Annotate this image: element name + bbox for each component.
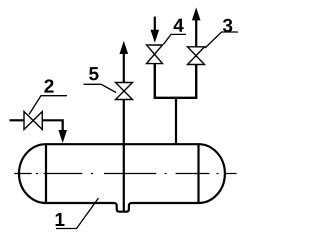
- valve 5: [116, 83, 133, 100]
- pipe into valve 4: [154, 17, 156, 31]
- pipe above valve 3: [195, 19, 197, 47]
- label 4 leader: [164, 34, 187, 44]
- valve 3: [188, 47, 205, 65]
- arrow into vessel from valve 2: [58, 130, 67, 143]
- label 3: [223, 19, 232, 32]
- label 2 leader: [29, 96, 67, 115]
- pipe from valve 2 to vessel: [42, 120, 63, 131]
- arrow up from valve 5: [120, 41, 129, 54]
- header pipe joining valves 4 and 3: [155, 64, 196, 98]
- vessel right head seam: [197, 144, 199, 203]
- dip tube from valve 5 into vessel sump: [123, 100, 125, 212]
- arrow up from valve 3: [192, 7, 201, 20]
- label 1: [56, 213, 65, 226]
- arrow down into valve 4: [151, 30, 160, 43]
- label 2: [44, 79, 53, 92]
- label 3 leader: [205, 32, 238, 48]
- label 4: [174, 19, 184, 32]
- label 5: [89, 67, 98, 80]
- label 5 leader: [84, 84, 117, 92]
- label 1 leader: [56, 198, 99, 229]
- valve 2: [24, 112, 42, 130]
- vessel 1 shell: [19, 144, 225, 212]
- drop pipe from header to vessel: [175, 98, 177, 145]
- pipe above valve 5: [123, 53, 125, 83]
- valve 4: [147, 45, 163, 64]
- vessel left head seam: [45, 144, 47, 203]
- pipe into valve 2 left: [10, 119, 25, 121]
- centerline of vessel: [14, 173, 236, 175]
